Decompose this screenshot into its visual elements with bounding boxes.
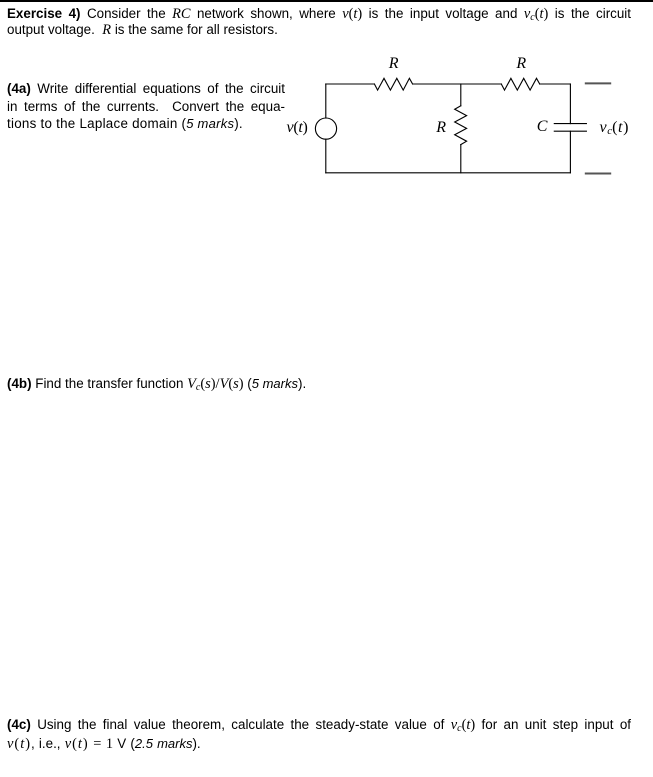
resistor R2 (top right): [501, 78, 539, 90]
label C: [537, 118, 548, 136]
resistor R3 (shunt middle): [455, 106, 467, 145]
paragraph: (4a) line 2: [7, 98, 285, 115]
wire middle vertical upper: [460, 84, 462, 106]
paragraph: exercise statement line 2: [7, 21, 278, 39]
label vc(t): [600, 119, 630, 137]
wire top-left horizontal: [326, 83, 375, 85]
wire bottom horizontal: [326, 172, 571, 174]
output terminal top: [585, 82, 611, 84]
wire left vertical upper: [325, 84, 327, 118]
top rule: [0, 0, 653, 2]
paragraph: (4b): [7, 375, 306, 393]
label R1: [389, 55, 399, 73]
source V1 circle: [315, 118, 336, 139]
wire right vertical lower: [569, 131, 571, 173]
wire left vertical lower: [325, 139, 327, 173]
output terminal bottom: [585, 173, 611, 175]
wire right vertical upper: [569, 84, 571, 124]
paragraph: exercise statement line 1: [7, 5, 631, 23]
label R3: [436, 119, 446, 137]
paragraph: (4c) line 1: [7, 716, 631, 734]
paragraph: (4a) line 1: [7, 80, 285, 97]
wire top-right horizontal: [540, 83, 571, 85]
paragraph: (4c) line 2: [7, 735, 201, 753]
paragraph: (4a) line 3: [7, 115, 243, 132]
wire top-middle horizontal: [413, 83, 502, 85]
capacitor C top plate: [554, 123, 586, 125]
wire middle vertical lower: [460, 145, 462, 173]
label v(t): [287, 119, 308, 137]
capacitor C bottom plate: [554, 130, 586, 132]
label R2: [516, 55, 526, 73]
resistor R1 (top left): [374, 78, 412, 90]
